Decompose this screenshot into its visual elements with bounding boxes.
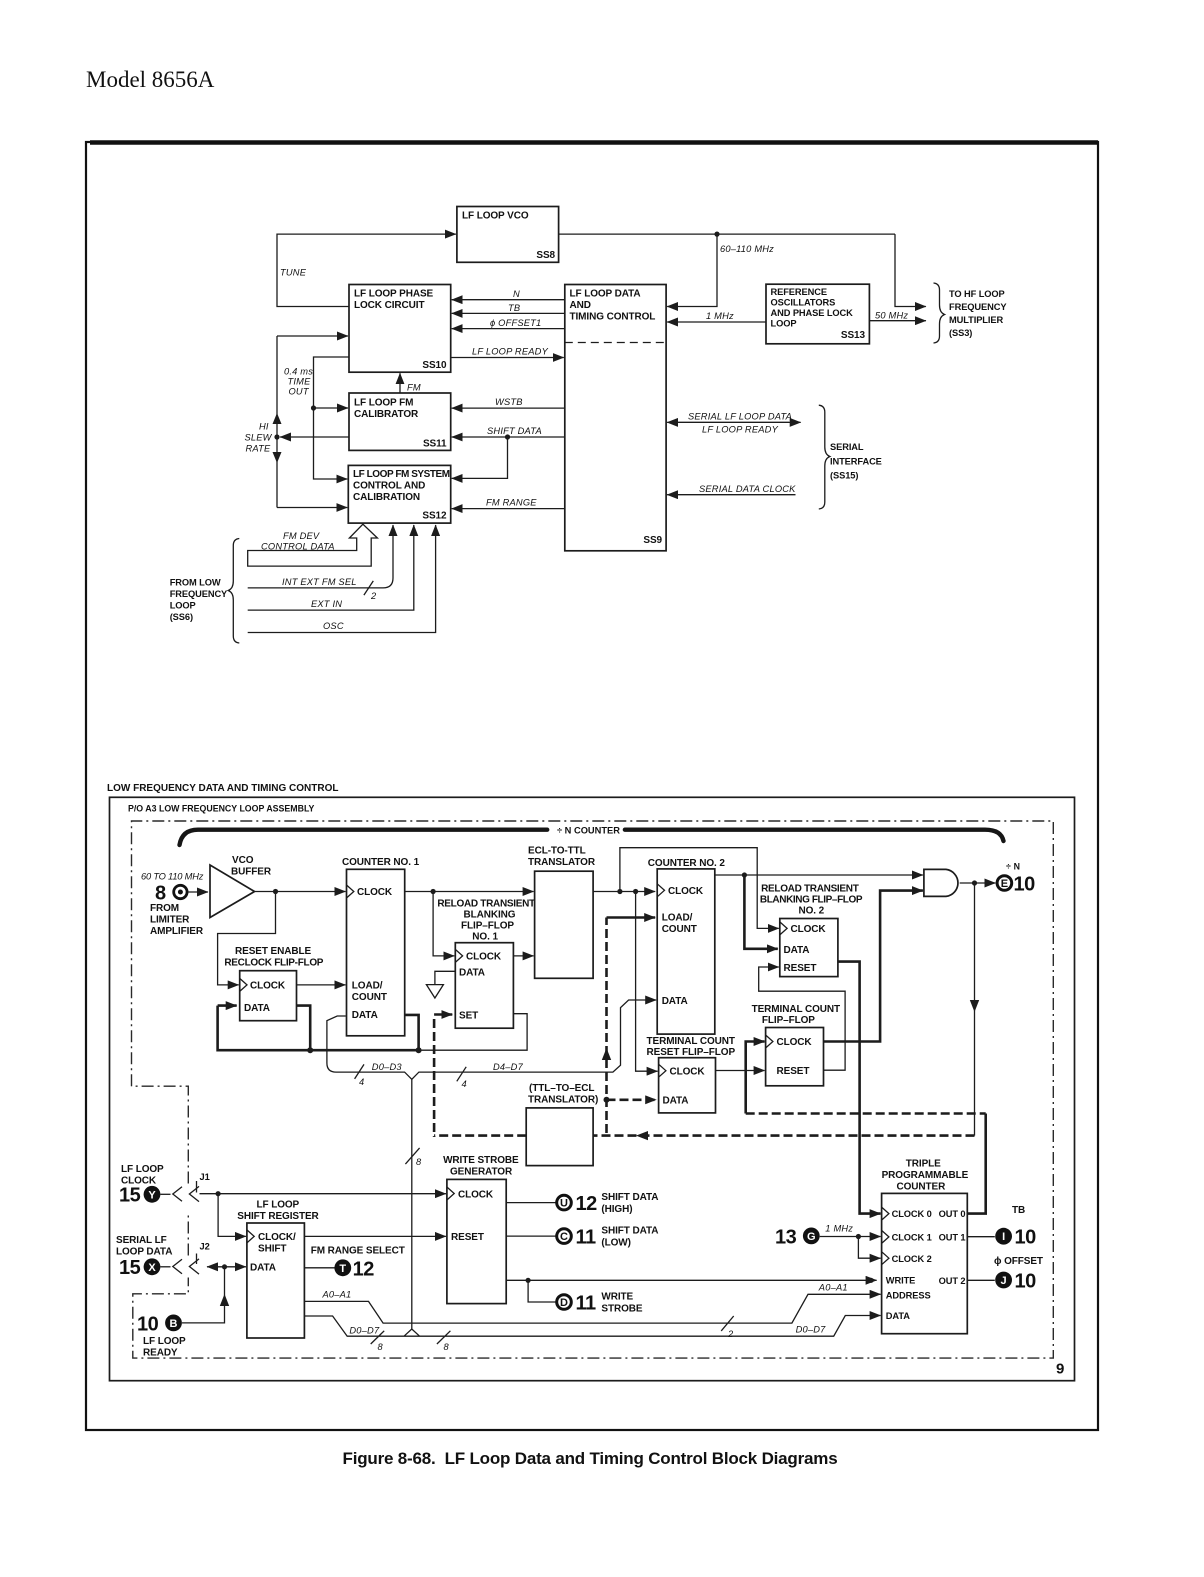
wire riser to reset enable output [297, 1006, 311, 1051]
label WRITE STROBE [601, 1292, 643, 1315]
svg-text:1 MHz: 1 MHz [706, 311, 734, 321]
svg-text:LIMITER: LIMITER [150, 915, 190, 926]
slash 2 on INT EXT FM SEL [364, 581, 373, 595]
svg-text:J2: J2 [200, 1242, 210, 1252]
label 0.4 ms TIME OUT [284, 367, 313, 397]
svg-text:FLIP–FLOP: FLIP–FLOP [762, 1015, 815, 1026]
svg-text:9: 9 [1056, 1361, 1064, 1378]
label TO HF LOOP FREQUENCY MULTIPLIER (SS3) [949, 289, 1007, 338]
wire 0.4 ms time out from SS10 to SS11 and SS12 [314, 357, 350, 479]
svg-text:HI: HI [259, 422, 269, 432]
svg-text:12: 12 [576, 1193, 598, 1215]
svg-text:10: 10 [1015, 1271, 1037, 1293]
svg-text:STROBE: STROBE [601, 1304, 643, 1315]
svg-text:B: B [170, 1318, 178, 1330]
svg-text:X: X [148, 1262, 156, 1274]
node clock junction before ECL translator [431, 889, 436, 894]
svg-text:DATA: DATA [459, 968, 485, 979]
svg-text:SET: SET [459, 1011, 478, 1022]
connector J2 [160, 1242, 209, 1275]
block RELOAD TRANSIENT BLANKING FLIP-FLOP NO.2 [780, 919, 838, 977]
wire riser branch into terminal count reset FF data [607, 1099, 657, 1102]
svg-text:WRITE STROBE: WRITE STROBE [443, 1155, 519, 1166]
slash 4 on D4-D7 [457, 1067, 466, 1082]
svg-text:TIME: TIME [288, 377, 312, 387]
terminal T12 [334, 1259, 374, 1281]
symbol bus merge triangle on D0-D7 [404, 1329, 420, 1336]
svg-text:SHIFT DATA: SHIFT DATA [601, 1226, 658, 1237]
svg-text:RESET: RESET [784, 963, 817, 974]
svg-text:RELOAD TRANSIENT: RELOAD TRANSIENT [437, 899, 535, 910]
block WRITE STROBE GENERATOR [447, 1179, 506, 1303]
wire SET arrow into reload FF1 [434, 1013, 452, 1016]
block LF LOOP FM CALIBRATOR (SS11) [349, 393, 451, 450]
svg-text:8: 8 [155, 883, 166, 905]
svg-text:15: 15 [119, 1185, 141, 1207]
svg-text:TRANSLATOR): TRANSLATOR) [528, 1095, 598, 1106]
boundary dash at J2 [196, 1254, 198, 1265]
svg-text:LOOP DATA: LOOP DATA [116, 1247, 172, 1258]
svg-text:D0–D7: D0–D7 [349, 1326, 380, 1336]
svg-text:A0–A1: A0–A1 [322, 1290, 352, 1300]
svg-text:15: 15 [119, 1257, 141, 1279]
bus A0-A1 from shift register to TPC address [304, 1294, 880, 1323]
svg-text:N: N [513, 289, 520, 299]
svg-text:CLOCK 1: CLOCK 1 [892, 1233, 932, 1243]
wire HI SLEW RATE into SS12 [277, 507, 347, 509]
svg-text:RESET FLIP–FLOP: RESET FLIP–FLOP [647, 1047, 736, 1058]
svg-text:4: 4 [462, 1079, 467, 1089]
svg-text:COUNT: COUNT [352, 992, 387, 1003]
svg-text:(SS15): (SS15) [830, 471, 858, 481]
node clock junction down-branch [633, 889, 638, 894]
svg-text:LF LOOP FM SYSTEM: LF LOOP FM SYSTEM [353, 469, 450, 480]
svg-text:DATA: DATA [244, 1003, 270, 1014]
svg-text:CLOCK: CLOCK [357, 887, 393, 898]
svg-text:OUT 0: OUT 0 [939, 1209, 966, 1219]
svg-text:CLOCK: CLOCK [250, 981, 286, 992]
svg-text:8: 8 [444, 1342, 450, 1352]
svg-text:FROM: FROM [150, 903, 179, 914]
wire branch to shift register clock [218, 1194, 246, 1237]
svg-text:CLOCK/: CLOCK/ [258, 1232, 296, 1243]
label LF LOOP SHIFT REGISTER [237, 1200, 319, 1223]
svg-text:10: 10 [137, 1314, 159, 1336]
svg-text:SS12: SS12 [422, 511, 447, 522]
wire serial data bidirectional to shift register [207, 1266, 225, 1268]
wire ECL out clock line to counter no.2 [593, 891, 655, 893]
wire shift data high to terminal U12 [506, 1202, 556, 1204]
slash 8 on riser [405, 1148, 419, 1164]
svg-text:COUNT: COUNT [662, 924, 697, 935]
svg-text:SS10: SS10 [422, 360, 447, 371]
svg-text:A0–A1: A0–A1 [818, 1283, 848, 1293]
arrow left on dashed feedback [636, 1131, 648, 1140]
block ECL-TO-TTL TRANSLATOR [535, 871, 594, 978]
wire reload FF1 data to logic low [435, 971, 455, 984]
svg-text:SERIAL LF LOOP DATA: SERIAL LF LOOP DATA [688, 412, 792, 422]
wire OSC into SS12 [248, 525, 436, 633]
wire FM range select to terminal T12 [304, 1267, 334, 1269]
wire branch to TPC clock 2 [858, 1237, 880, 1259]
node VCO output junction [714, 232, 719, 237]
wire out 1 to terminal I10 [967, 1236, 995, 1238]
svg-text:READY: READY [143, 1348, 178, 1359]
label FM DEV CONTROL DATA [261, 531, 335, 552]
svg-text:INT EXT FM SEL: INT EXT FM SEL [282, 577, 357, 587]
svg-text:60–110 MHz: 60–110 MHz [720, 244, 774, 254]
wire SET dashed bus riser [433, 1019, 436, 1137]
svg-text:CALIBRATION: CALIBRATION [353, 492, 420, 503]
svg-text:FREQUENCY: FREQUENCY [949, 302, 1007, 312]
wire reset enable clock out to counter no.1 load [297, 984, 346, 986]
block RELOAD TRANSIENT BLANKING FLIP-FLOP NO.1 [455, 943, 513, 1028]
svg-text:Model 8656A: Model 8656A [86, 67, 215, 92]
svg-text:FM DEV: FM DEV [283, 531, 320, 541]
block COUNTER NO. 2 [657, 869, 715, 1034]
svg-text:PROGRAMMABLE: PROGRAMMABLE [882, 1170, 969, 1181]
wire 1 MHz from SS13 to SS9 [667, 321, 766, 323]
wire TUNE from SS10 to VCO [277, 234, 456, 306]
svg-text:CLOCK: CLOCK [466, 952, 502, 963]
svg-text:NO. 1: NO. 1 [472, 932, 498, 943]
block TTL-TO-ECL TRANSLATOR [526, 1108, 593, 1166]
svg-text:TRIPLE: TRIPLE [906, 1159, 941, 1170]
svg-text:BLANKING: BLANKING [464, 910, 516, 921]
svg-text:LOOP: LOOP [771, 319, 797, 329]
wire AND output branch down to dashed feedback [974, 883, 976, 1136]
svg-text:BUFFER: BUFFER [231, 867, 272, 878]
svg-text:FREQUENCY: FREQUENCY [170, 589, 228, 599]
terminal J10 phi offset [994, 1256, 1043, 1293]
terminal 8 coax from limiter amplifier [155, 883, 187, 905]
svg-text:I: I [1002, 1231, 1005, 1243]
wire HI SLEW RATE vertical [276, 336, 278, 508]
wire HI SLEW RATE out of SS11 [280, 436, 349, 438]
svg-text:CLOCK: CLOCK [791, 924, 827, 935]
svg-text:T: T [339, 1263, 346, 1275]
svg-text:13: 13 [775, 1227, 797, 1249]
svg-text:LF LOOP VCO: LF LOOP VCO [462, 211, 529, 222]
svg-text:D4–D7: D4–D7 [493, 1062, 524, 1072]
node feedback junction right [416, 1047, 422, 1053]
block LF LOOP PHASE LOCK CIRCUIT (SS10) [349, 285, 451, 373]
svg-text:TB: TB [508, 303, 520, 313]
label VCO BUFFER [231, 855, 272, 878]
svg-text:DATA: DATA [250, 1263, 276, 1274]
terminal 15 X SERIAL LF LOOP DATA [116, 1235, 172, 1279]
boundary dash at J1 [196, 1181, 198, 1193]
node clock junction [216, 1191, 221, 1196]
wire reload FF2 output down to triple programmable counter clock 0 [838, 962, 881, 1214]
svg-text:TERMINAL COUNT: TERMINAL COUNT [647, 1036, 735, 1047]
label (TTL-TO-ECL TRANSLATOR) [528, 1083, 598, 1106]
svg-text:TO HF LOOP: TO HF LOOP [949, 289, 1005, 299]
wire phi OFFSET1 from SS9 to SS10 [452, 328, 565, 330]
label FROM LOW FREQUENCY LOOP (SS6) [170, 578, 228, 623]
svg-text:OUT 1: OUT 1 [939, 1233, 966, 1243]
svg-text:D0–D3: D0–D3 [372, 1062, 403, 1072]
terminal 15 Y LF LOOP CLOCK [119, 1164, 164, 1207]
wire buffer output clock line to counter no.1 [255, 891, 346, 893]
node serial data junction [222, 1264, 227, 1269]
divide-by-N counter heavy bracket left part [180, 830, 548, 845]
label ECL-TO-TTL TRANSLATOR [528, 846, 596, 869]
wire clock from counter no.1 to ECL translator [405, 891, 534, 893]
svg-text:DATA: DATA [663, 1096, 689, 1107]
block LF LOOP FM SYSTEM CONTROL AND CALIBRATION (SS12) [348, 465, 450, 523]
figure outer border frame [86, 142, 1098, 1430]
svg-text:D: D [560, 1297, 568, 1309]
svg-text:G: G [807, 1231, 816, 1243]
svg-text:SERIAL DATA CLOCK: SERIAL DATA CLOCK [699, 484, 796, 494]
block REFERENCE OSCILLATORS AND PHASE LOCK LOOP (SS13) [766, 284, 869, 344]
svg-text:SHIFT DATA: SHIFT DATA [487, 426, 542, 436]
label SHIFT DATA (HIGH) [601, 1192, 658, 1215]
svg-text:SS8: SS8 [536, 250, 555, 261]
svg-text:ECL-TO-TTL: ECL-TO-TTL [528, 846, 586, 857]
wire out 0 riser [967, 1114, 985, 1214]
arrow up on HI SLEW RATE line [273, 413, 282, 424]
svg-text:LF LOOP PHASE: LF LOOP PHASE [354, 289, 434, 300]
svg-text:RECLOCK FLIP-FLOP: RECLOCK FLIP-FLOP [224, 958, 323, 969]
svg-text:(LOW): (LOW) [601, 1238, 631, 1249]
arrow up on LF loop ready wire [220, 1294, 229, 1306]
label SHIFT DATA (LOW) [601, 1226, 658, 1249]
wire shift register reset to write strobe generator [304, 1235, 446, 1237]
svg-text:RATE: RATE [246, 444, 272, 454]
svg-text:2: 2 [727, 1329, 734, 1339]
terminal D11 [557, 1293, 596, 1315]
slash 4 on D0-D3 [355, 1064, 364, 1079]
svg-text:LOAD/: LOAD/ [662, 913, 693, 924]
svg-text:SHIFT DATA: SHIFT DATA [601, 1192, 658, 1203]
gate AND divide-by-N [924, 869, 958, 896]
block TERMINAL COUNT RESET FLIP-FLOP [659, 1058, 716, 1113]
svg-text:TUNE: TUNE [280, 268, 307, 278]
wire 60-110 MHz drop to HF loop multiplier [895, 234, 926, 306]
wire shift data low to terminal C11 [506, 1235, 556, 1237]
terminal U12 [557, 1193, 597, 1215]
wire SHIFT DATA from SS9 to SS11 [452, 436, 565, 438]
svg-text:LF LOOP: LF LOOP [257, 1200, 300, 1211]
svg-text:4: 4 [359, 1077, 364, 1087]
svg-text:CLOCK 2: CLOCK 2 [892, 1254, 932, 1264]
svg-text:Y: Y [148, 1189, 156, 1201]
svg-text:LF LOOP: LF LOOP [143, 1336, 186, 1347]
svg-text:E: E [1001, 878, 1008, 890]
svg-text:(SS3): (SS3) [949, 328, 972, 338]
svg-text:(HIGH): (HIGH) [601, 1204, 632, 1215]
svg-text:P/O A3 LOW FREQUENCY LOOP ASSE: P/O A3 LOW FREQUENCY LOOP ASSEMBLY [128, 804, 315, 814]
svg-text:NO. 2: NO. 2 [799, 906, 825, 917]
assembly inner dash-dot boundary [132, 821, 1054, 1358]
wire FM RANGE from SS9 to SS12 [452, 508, 565, 510]
svg-text:DATA: DATA [784, 945, 810, 956]
svg-text:LF LOOP: LF LOOP [121, 1164, 164, 1175]
wire feedback into reset enable data [218, 1004, 237, 1007]
svg-text:RELOAD TRANSIENT: RELOAD TRANSIENT [761, 884, 859, 895]
svg-text:SS11: SS11 [423, 439, 447, 450]
slash 8 on D0-D7 left [371, 1331, 385, 1344]
svg-text:FM RANGE SELECT: FM RANGE SELECT [311, 1246, 405, 1257]
wire counter no.2 output to AND gate [715, 874, 923, 876]
svg-text:(TTL–TO–ECL: (TTL–TO–ECL [529, 1083, 594, 1094]
svg-text:SERIAL LF: SERIAL LF [116, 1235, 167, 1246]
wire counter no.2 load/count input (thick dashed riser) [605, 918, 608, 1134]
terminal E10 [997, 874, 1035, 896]
wire terminal count FF clock out to AND gate [824, 891, 923, 1042]
svg-text:SS13: SS13 [841, 330, 866, 341]
svg-text:CLOCK 0: CLOCK 0 [892, 1209, 932, 1219]
svg-text:TERMINAL COUNT: TERMINAL COUNT [752, 1004, 840, 1015]
arrow down on HI SLEW RATE line [273, 452, 282, 463]
svg-text:TIMING CONTROL: TIMING CONTROL [570, 312, 656, 323]
svg-text:CLOCK: CLOCK [670, 1067, 706, 1078]
svg-text:D0–D7: D0–D7 [796, 1325, 827, 1335]
svg-text:RESET: RESET [451, 1232, 484, 1243]
svg-text:J1: J1 [200, 1172, 210, 1182]
wire FM from SS11 to SS10 [399, 373, 401, 393]
connector J1 [160, 1172, 209, 1202]
svg-text:ϕ OFFSET: ϕ OFFSET [994, 1256, 1043, 1267]
svg-text:C: C [560, 1231, 568, 1243]
wire branch to terminal D11 [528, 1280, 556, 1302]
label RELOAD TRANSIENT BLANKING FLIP-FLOP NO. 2 [760, 884, 863, 917]
svg-text:MULTIPLIER: MULTIPLIER [949, 315, 1003, 325]
node clock junction up-branch [617, 889, 622, 894]
wire INT EXT FM SEL into SS12 [248, 525, 393, 588]
arrow up on load/count riser [602, 1048, 611, 1060]
node AND output junction [972, 880, 977, 885]
node feedback junction at reset enable output [307, 1047, 313, 1053]
svg-text:AND PHASE LOCK: AND PHASE LOCK [771, 308, 854, 318]
svg-text:SHIFT: SHIFT [258, 1244, 286, 1255]
wire branch down to reload FF no.2 data [744, 875, 777, 949]
label HI SLEW RATE [245, 422, 273, 454]
slash 8 on D0-D7 right [437, 1331, 451, 1344]
svg-text:SS9: SS9 [643, 535, 662, 546]
brace to HF loop frequency multiplier [934, 283, 945, 343]
svg-text:LF LOOP FM: LF LOOP FM [354, 398, 413, 409]
svg-text:TB: TB [1012, 1205, 1025, 1216]
label RESET ENABLE RECLOCK FLIP-FLOP [224, 946, 323, 969]
svg-text:8: 8 [378, 1342, 384, 1352]
svg-text:FM: FM [407, 383, 421, 393]
svg-text:ϕ OFFSET1: ϕ OFFSET1 [490, 318, 541, 328]
svg-text:INTERFACE: INTERFACE [830, 457, 882, 467]
op-amp VCO BUFFER [210, 865, 255, 918]
wire 60-110 MHz drop into SS9 [667, 234, 717, 306]
svg-text:U: U [560, 1198, 568, 1210]
node counter no.2 output junction [742, 872, 747, 877]
svg-text:J: J [1001, 1275, 1007, 1287]
label RELOAD TRANSIENT BLANKING FLIP-FLOP NO. 1 [437, 899, 535, 943]
svg-text:LOOP: LOOP [170, 601, 196, 611]
svg-text:(SS6): (SS6) [170, 612, 193, 622]
svg-text:12: 12 [353, 1259, 375, 1281]
wire dashed feedback line no.1 from out 0 [746, 1112, 986, 1115]
svg-text:OSCILLATORS: OSCILLATORS [771, 298, 836, 308]
terminal 10 B LF LOOP READY [137, 1314, 186, 1359]
wire VCO output 60-110 MHz [559, 233, 895, 235]
node riser junction to TCRFF data [604, 1097, 610, 1103]
block LF LOOP DATA AND TIMING CONTROL (SS9) [565, 285, 666, 551]
wire TB from SS9 to SS10 [452, 312, 565, 314]
wire N from SS9 to SS10 [452, 299, 565, 301]
arrow down on AND branch [970, 1000, 979, 1012]
node HI SLEW RATE junction [274, 434, 279, 439]
wire LF loop ready up to serial data junction [182, 1267, 225, 1323]
wire out 2 to terminal J10 [967, 1279, 995, 1281]
svg-text:WRITE: WRITE [601, 1292, 633, 1303]
svg-text:RESET ENABLE: RESET ENABLE [235, 946, 311, 957]
svg-text:COUNTER: COUNTER [897, 1182, 947, 1193]
terminal 13 G 1 MHz [775, 1227, 820, 1249]
node SHIFT DATA junction [505, 434, 510, 439]
brace from low frequency loop [228, 539, 239, 644]
svg-text:11: 11 [576, 1227, 597, 1249]
svg-text:SLEW: SLEW [245, 433, 273, 443]
wire feedback thin link to reload FF no.1 set row [419, 1014, 527, 1050]
svg-text:11: 11 [576, 1293, 597, 1315]
svg-text:60 TO 110 MHz: 60 TO 110 MHz [141, 872, 204, 882]
svg-text:AND: AND [570, 300, 591, 311]
slash 2 on A0-A1 [721, 1316, 734, 1331]
svg-text:ADDRESS: ADDRESS [886, 1290, 931, 1300]
svg-text:DATA: DATA [662, 996, 688, 1007]
wire clock branch down to reload FF no.1 [433, 892, 454, 956]
svg-text:RESET: RESET [777, 1066, 810, 1077]
wire clock down-route to terminal count reset FF clock [636, 892, 658, 1072]
svg-text:VCO: VCO [232, 855, 254, 866]
svg-text:CLOCK: CLOCK [777, 1037, 813, 1048]
svg-text:REFERENCE: REFERENCE [771, 287, 827, 297]
label FROM LIMITER AMPLIFIER [150, 903, 204, 937]
svg-text:10: 10 [1014, 874, 1036, 896]
wire 50 MHz from SS13 to HF loop multiplier [869, 320, 926, 322]
brace serial interface [819, 405, 830, 509]
svg-text:CLOCK: CLOCK [668, 886, 704, 897]
block LF LOOP SHIFT REGISTER [247, 1223, 305, 1338]
svg-text:DATA: DATA [886, 1311, 910, 1321]
svg-text:SHIFT REGISTER: SHIFT REGISTER [237, 1211, 319, 1222]
wire SERIAL LF LOOP DATA double arrow [678, 421, 801, 423]
bus FM DEV CONTROL DATA hollow arrow into SS12 [248, 524, 378, 566]
wire clock over-route to reload FF no.2 clock [620, 848, 779, 929]
svg-text:OUT 2: OUT 2 [939, 1276, 966, 1286]
svg-text:CONTROL AND: CONTROL AND [353, 481, 425, 492]
label TERMINAL COUNT FLIP-FLOP [752, 1004, 840, 1026]
svg-text:LOCK CIRCUIT: LOCK CIRCUIT [354, 300, 424, 311]
node write junction near TPC [868, 1278, 873, 1283]
wire write strobe line to TPC write [506, 1279, 876, 1281]
svg-text:TRANSLATOR: TRANSLATOR [528, 857, 596, 868]
block COUNTER NO. 1 [347, 869, 405, 1036]
svg-text:LOW FREQUENCY DATA AND TIMING: LOW FREQUENCY DATA AND TIMING CONTROL [107, 783, 338, 794]
node 1 MHz junction [856, 1234, 861, 1239]
svg-text:GENERATOR: GENERATOR [450, 1167, 513, 1178]
svg-text:10: 10 [1015, 1227, 1037, 1249]
divide-by-N counter heavy bracket right part [625, 830, 1004, 841]
node 0.4ms junction [311, 405, 316, 410]
svg-text:OSC: OSC [323, 621, 344, 631]
bus 8-bit riser down to D0-D7 [411, 1079, 413, 1329]
svg-text:LF LOOP READY: LF LOOP READY [702, 425, 779, 435]
wire AND output to terminal E10 [960, 882, 996, 884]
wire terminal count FF clock input riser [746, 1042, 765, 1114]
label WRITE STROBE GENERATOR [443, 1155, 519, 1178]
